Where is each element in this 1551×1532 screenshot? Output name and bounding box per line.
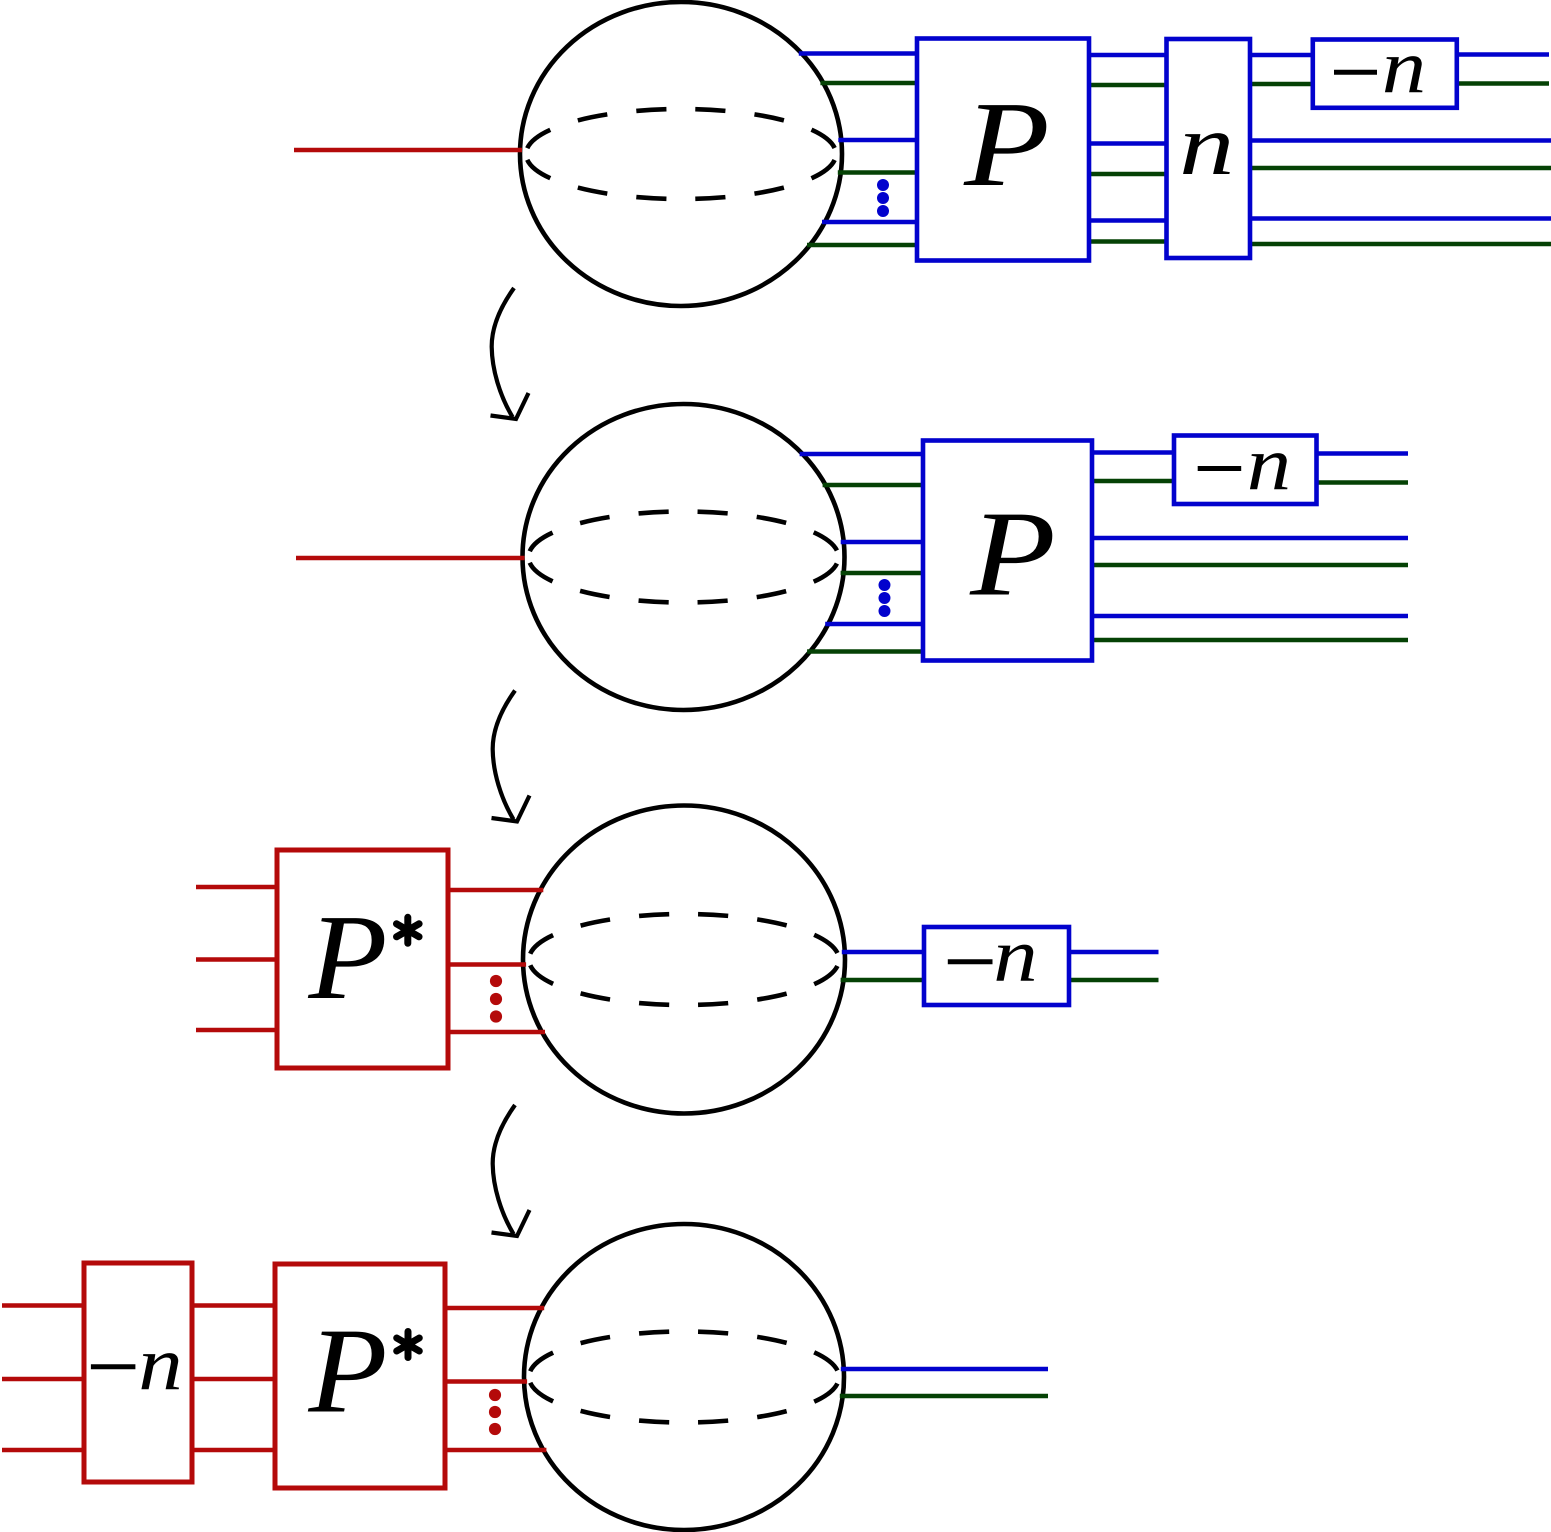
svg-text:n: n bbox=[1382, 24, 1426, 109]
box minus-n row1 bbox=[1313, 40, 1457, 108]
ellipsis dots row2 bbox=[879, 579, 891, 617]
label minus-n row1 : minus sign bbox=[1334, 70, 1377, 75]
wire row1 green 1 P-to-n bbox=[1089, 83, 1167, 88]
wire row2 blue 1 sphere-to-P bbox=[800, 452, 923, 457]
wire row1 green 2 n-to-edge bbox=[1250, 166, 1551, 171]
sphere row3 (outer circle) bbox=[523, 806, 845, 1114]
wire row4 red Pstar-to-sphere 3 bbox=[445, 1448, 546, 1453]
wire row4 red Pstar-to-sphere 1 bbox=[445, 1306, 544, 1311]
wire row2 blue 3 P-to-end bbox=[1092, 614, 1408, 619]
wire row1 blue 1 P-to-n bbox=[1089, 53, 1167, 58]
label minus-n row2 : minus sign bbox=[1198, 466, 1242, 471]
sphere row3 equator (dashed ellipse) bbox=[529, 914, 839, 1005]
svg-text:P: P bbox=[307, 890, 387, 1025]
wire row1 green 3 n-to-edge bbox=[1250, 242, 1551, 247]
sphere row1 (outer circle) bbox=[520, 2, 842, 306]
wire row1 blue 1 n-to-minusn bbox=[1250, 53, 1313, 58]
box minus-n row3 bbox=[924, 927, 1069, 1005]
wire row1 green 3 sphere-to-P bbox=[807, 243, 917, 248]
wire row3 red Pstar-to-sphere 3 bbox=[448, 1030, 545, 1035]
wire row3 red input 3 bbox=[196, 1028, 277, 1033]
wire row1 blue 2 n-to-edge bbox=[1250, 138, 1551, 143]
wire row3 red input 1 bbox=[196, 885, 277, 890]
wire row2 blue 2 sphere-to-P bbox=[841, 540, 923, 545]
box P row1 bbox=[917, 39, 1089, 261]
svg-text:P: P bbox=[963, 77, 1050, 212]
wire row1 blue 2 sphere-to-P bbox=[838, 138, 917, 143]
wire row2 red input bbox=[296, 556, 525, 561]
curved arrow 2 (row2 to row3) bbox=[492, 691, 530, 822]
wire row2 blue 3 sphere-to-P bbox=[825, 622, 923, 627]
wire row1 blue 3 n-to-edge bbox=[1250, 216, 1551, 221]
box n row1 bbox=[1167, 39, 1251, 258]
wire row2 green 1 minusn-to-end bbox=[1318, 480, 1408, 485]
wire row4 red minusn-to-Pstar 1 bbox=[192, 1303, 275, 1308]
wire row1 blue 2 P-to-n bbox=[1089, 141, 1167, 146]
sphere row1 equator (dashed ellipse) bbox=[526, 109, 836, 199]
wire row3 green sphere-to-minusn bbox=[841, 978, 924, 983]
wire row1 blue 1 minusn-to-edge bbox=[1457, 52, 1549, 57]
wire row1 green 3 P-to-n bbox=[1089, 239, 1167, 244]
wire row2 blue 2 P-to-end bbox=[1092, 536, 1408, 541]
label Pstar row4 : asterisk superscript bbox=[397, 1332, 420, 1358]
sphere row2 (outer circle) bbox=[523, 404, 845, 710]
wire row4 red minusn-to-Pstar 3 bbox=[192, 1448, 275, 1453]
svg-text:n: n bbox=[1247, 421, 1291, 506]
label minus-n row4 : minus sign bbox=[91, 1364, 135, 1369]
wire row1 green 2 sphere-to-P bbox=[838, 170, 917, 175]
curved arrow 1 (row1 to row2) bbox=[491, 288, 529, 419]
wire row4 blue sphere-to-end bbox=[841, 1367, 1048, 1372]
box minus-n row2 bbox=[1174, 436, 1317, 505]
wire row1 green 1 n-to-minusn bbox=[1250, 82, 1313, 87]
wire row2 green 3 sphere-to-P bbox=[807, 649, 923, 654]
wire row4 red input 3 bbox=[2, 1448, 84, 1453]
wire row3 blue sphere-to-minusn bbox=[842, 950, 924, 955]
wire row4 red Pstar-to-sphere 2 bbox=[445, 1379, 527, 1384]
wire row4 green sphere-to-end bbox=[840, 1394, 1048, 1399]
sphere row4 equator (dashed ellipse) bbox=[529, 1332, 839, 1423]
wire row1 blue 3 P-to-n bbox=[1089, 218, 1167, 223]
box Pstar row4 bbox=[275, 1264, 445, 1488]
wire row1 blue 3 sphere-to-P bbox=[822, 220, 917, 225]
label minus-n row3 : minus sign bbox=[948, 959, 993, 964]
wire row3 red Pstar-to-sphere 1 bbox=[448, 888, 543, 893]
svg-text:n: n bbox=[1179, 96, 1234, 193]
wire row2 green 1 sphere-to-P bbox=[823, 483, 923, 488]
curved arrow 3 (row3 to row4) bbox=[492, 1105, 530, 1236]
ellipsis dots row3 bbox=[490, 975, 502, 1023]
svg-text:P: P bbox=[307, 1304, 387, 1439]
wire row1 green 1 sphere-to-P bbox=[820, 81, 917, 86]
wire row3 blue minusn-to-end bbox=[1069, 950, 1159, 955]
ellipsis dots row1 bbox=[877, 179, 889, 217]
wire row2 green 1 P-to-minusn bbox=[1092, 479, 1174, 484]
box minus-n row4 bbox=[84, 1263, 192, 1482]
box P row2 bbox=[923, 441, 1092, 661]
wire row3 red Pstar-to-sphere 2 bbox=[448, 962, 526, 967]
label Pstar row3 : asterisk superscript bbox=[397, 917, 420, 943]
svg-text:n: n bbox=[138, 1321, 182, 1406]
svg-text:P: P bbox=[969, 487, 1056, 622]
wire row3 red input 2 bbox=[196, 957, 277, 962]
wire row1 green 1 minusn-to-edge bbox=[1457, 81, 1549, 86]
wire row1 red input bbox=[294, 148, 522, 153]
ellipsis dots row4 bbox=[489, 1389, 501, 1435]
wire row3 green minusn-to-end bbox=[1069, 978, 1159, 983]
wire row2 green 3 P-to-end bbox=[1092, 638, 1408, 643]
wire row1 green 2 P-to-n bbox=[1089, 172, 1167, 177]
wire row1 blue 1 sphere-to-P bbox=[799, 51, 917, 56]
wire row4 red input 2 bbox=[2, 1377, 84, 1382]
wire row2 blue 1 minusn-to-end bbox=[1318, 451, 1408, 456]
wire row2 blue 1 P-to-minusn bbox=[1092, 450, 1174, 455]
wire row4 red minusn-to-Pstar 2 bbox=[192, 1377, 275, 1382]
box Pstar row3 bbox=[277, 850, 448, 1068]
sphere row2 equator (dashed ellipse) bbox=[529, 512, 839, 603]
sphere row4 (outer circle) bbox=[524, 1224, 844, 1530]
wire row4 red input 1 bbox=[2, 1303, 84, 1308]
wire row2 green 2 sphere-to-P bbox=[841, 571, 923, 576]
svg-text:n: n bbox=[993, 912, 1037, 997]
wire row2 green 2 P-to-end bbox=[1092, 563, 1408, 568]
